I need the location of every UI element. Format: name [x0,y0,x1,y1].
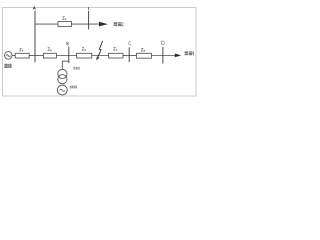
arrow to load 2 [99,22,108,27]
generator G [57,85,67,95]
load label 负荷2 [114,22,124,26]
arrow to load 1 [175,54,181,58]
value label Z1 [48,48,52,51]
wire Z1 to bus B and on [56,55,76,57]
node B label [67,42,69,45]
value label Zs [20,48,24,51]
bus B [68,47,70,63]
wire bus B down to transformer [62,61,69,69]
wire Z2 to Z3 (fault section) [92,55,109,57]
wire Zs to bus A [29,55,43,57]
node 1 label (above top bar) [87,7,90,10]
wire Z3 to bus C and Z4 [123,55,136,57]
resistor Zs (system impedance) [15,53,29,58]
label MOA [74,67,80,70]
value label Z4 [141,48,145,51]
bus D [162,47,164,64]
node A label [33,7,36,10]
wire source to Zs [12,55,15,57]
resistor Z1 [43,53,56,58]
value label ZL2 [63,17,67,20]
resistor Z4 [136,53,151,58]
node D label [162,41,165,45]
value label Z2 [82,48,86,51]
source label 系统 [4,64,11,68]
wire ZL2 box to arrow [71,23,99,25]
value label Z3 [113,47,117,50]
node C label [128,42,131,45]
wire Z4 to bus D and arrow [151,55,175,57]
AC source (system) [5,52,13,60]
generator label 600kW [70,86,77,89]
bus A [34,11,36,63]
load label 负荷1 [185,51,194,55]
resistor Z2 [77,53,92,58]
resistor Z3 [109,53,123,58]
fault lightning bolt [96,41,103,60]
wire A to ZL2 box (top feeder) [35,23,58,25]
bus bar on top feeder [88,11,90,29]
bus C [128,47,130,62]
resistor ZL2 (top feeder impedance) [58,22,71,27]
transformer T1 [58,69,67,83]
border frame [3,8,197,97]
